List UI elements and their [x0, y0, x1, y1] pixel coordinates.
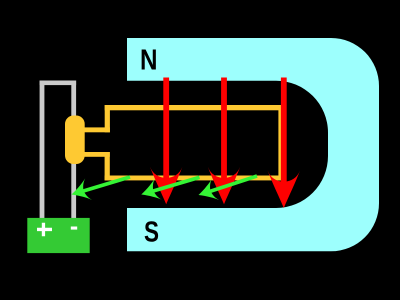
- wire: orange bottom horizontal (coil bottom): [105, 176, 284, 181]
- wire: orange right vertical (coil end): [278, 105, 283, 180]
- current arrow I2 (green): [138, 177, 200, 205]
- battery: [27, 218, 89, 253]
- wire: orange upper stub from block: [84, 127, 110, 132]
- current arrow I3 (green): [195, 176, 257, 206]
- battery + terminal label: [37, 223, 52, 237]
- field arrow B3 (red, N to S): [268, 78, 300, 209]
- commutator block (yellow rounded rect): [65, 116, 85, 165]
- wire: orange lower stub to block: [84, 152, 110, 157]
- wire: gray right vertical (battery - lead): [71, 81, 76, 219]
- field arrow B1 (red, N to S): [150, 78, 182, 205]
- current arrow I1 (green): [68, 177, 130, 205]
- wire: orange top horizontal (coil top): [105, 105, 284, 110]
- field arrow B2 (red, N to S): [208, 78, 240, 205]
- wire: orange lower-left vertical: [105, 152, 110, 180]
- wire: orange upper-left vertical: [105, 105, 110, 132]
- horseshoe magnet: [127, 38, 379, 251]
- svg-text:S: S: [144, 216, 159, 248]
- battery - terminal label: [71, 227, 77, 230]
- svg-text:N: N: [140, 44, 158, 76]
- wire: gray top horizontal: [40, 81, 77, 86]
- wire: gray left vertical (battery + lead): [40, 81, 45, 219]
